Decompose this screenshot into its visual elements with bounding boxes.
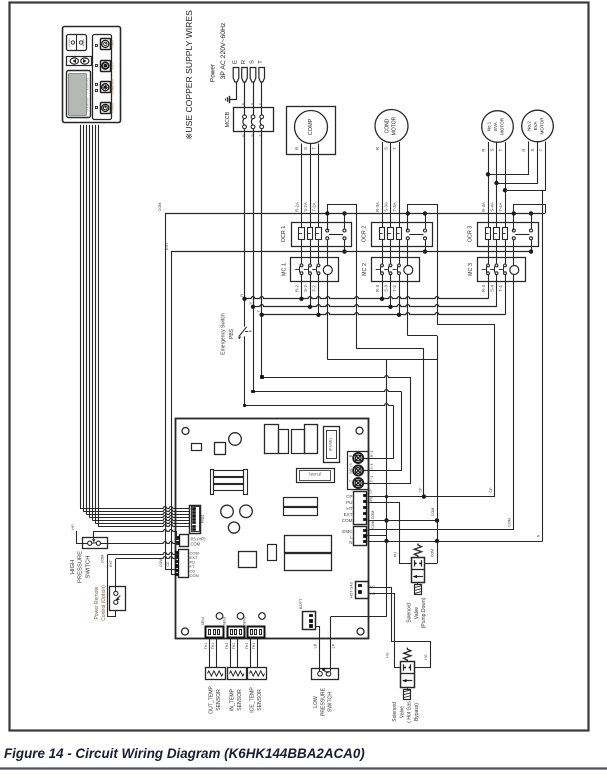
svg-text:T~1: T~1 [370, 476, 374, 482]
svg-text:PU: PU [370, 496, 374, 501]
svg-text:EXT: EXT [109, 559, 113, 567]
svg-text:(MC) S: (MC) S [349, 462, 353, 473]
svg-text:MCCB: MCCB [225, 111, 231, 127]
svg-text:EVA: EVA [533, 121, 538, 131]
svg-text:CP: CP [346, 494, 352, 499]
svg-text:HG: HG [386, 652, 390, 658]
svg-text:S: S [384, 147, 389, 150]
svg-text:MOTOR: MOTOR [392, 116, 398, 135]
svg-text:TH1: TH1 [204, 643, 208, 650]
svg-text:EVA: EVA [493, 121, 498, 131]
svg-text:PRESSURE: PRESSURE [78, 551, 84, 583]
svg-text:Bypass): Bypass) [414, 703, 420, 721]
svg-text:SENSOR: SENSOR [257, 689, 263, 711]
svg-text:HT: HT [346, 506, 352, 511]
svg-text:T-2: T-2 [312, 285, 317, 292]
svg-text:3P AC 220V~60Hz: 3P AC 220V~60Hz [220, 22, 227, 79]
svg-text:T-3A: T-3A [392, 202, 397, 211]
svg-text:ICE L: ICE L [111, 62, 115, 69]
svg-text:CP: CP [489, 487, 493, 493]
svg-text:S: S [250, 60, 256, 64]
svg-text:ALARM: ALARM [82, 39, 85, 46]
svg-text:T-4A: T-4A [498, 202, 503, 211]
svg-text:(Pump Down): (Pump Down) [421, 597, 427, 628]
svg-text:COM: COM [371, 511, 375, 519]
svg-text:COM: COM [508, 518, 512, 526]
svg-text:R: R [240, 294, 244, 297]
svg-text:COMP: COMP [308, 118, 314, 135]
svg-text:R: R [295, 147, 300, 150]
svg-text:Power: Power [210, 63, 217, 82]
svg-text:LP: LP [314, 643, 318, 648]
svg-text:COM: COM [431, 508, 435, 516]
svg-text:OUT_TEMP: OUT_TEMP [209, 686, 215, 714]
svg-text:PRESSURE: PRESSURE [320, 687, 326, 716]
svg-text:OCR 3: OCR 3 [468, 226, 474, 242]
svg-text:T: T [539, 148, 544, 151]
svg-text:No.2: No.2 [527, 121, 532, 131]
svg-text:ICE_TEMP: ICE_TEMP [250, 687, 256, 713]
svg-text:R-3A: R-3A [375, 202, 380, 212]
svg-text:COM: COM [342, 518, 353, 523]
svg-text:R: R [242, 102, 246, 105]
svg-text:※USE COPPER SUPPLY WIRES: ※USE COPPER SUPPLY WIRES [184, 10, 194, 140]
svg-text:R-2A: R-2A [295, 202, 300, 212]
svg-text:COM: COM [371, 520, 375, 528]
svg-text:SEN1: SEN1 [201, 616, 205, 625]
svg-text:Solenoid: Solenoid [407, 603, 413, 623]
svg-text:TH3: TH3 [252, 643, 256, 650]
svg-text:MC 3: MC 3 [468, 263, 474, 276]
svg-text:CD: CD [166, 561, 170, 566]
svg-text:COM: COM [158, 203, 162, 212]
svg-text:T: T [349, 480, 353, 482]
svg-text:Figure 14 - Circuit Wiring Dia: Figure 14 - Circuit Wiring Diagram (K6HK… [4, 746, 365, 761]
svg-text:SENSOR: SENSOR [216, 689, 222, 711]
svg-text:COM: COM [101, 555, 105, 563]
svg-text:CP: CP [419, 487, 423, 493]
svg-text:COM: COM [191, 542, 201, 547]
svg-text:Power Remote: Power Remote [94, 586, 100, 619]
svg-text:COM: COM [159, 559, 163, 567]
svg-text:MC 2: MC 2 [362, 263, 368, 276]
svg-text:LP: LP [332, 643, 336, 648]
svg-text:PU: PU [346, 500, 352, 505]
svg-text:COND: COND [385, 118, 391, 133]
svg-text:S: S [530, 148, 535, 151]
svg-text:N: N [349, 540, 352, 545]
svg-text:EMC: EMC [342, 529, 353, 534]
svg-text:PBS: PBS [229, 328, 235, 339]
svg-text:S-4: S-4 [490, 285, 495, 292]
svg-text:EXT: EXT [344, 512, 353, 517]
svg-text:FND: FND [200, 515, 205, 524]
svg-text:Emergency Switch: Emergency Switch [221, 313, 227, 355]
svg-text:SWITCH: SWITCH [328, 692, 334, 712]
svg-text:POWER: POWER [111, 103, 115, 113]
svg-text:LOW: LOW [313, 696, 319, 708]
svg-text:R: R [375, 147, 380, 150]
svg-text:HP: HP [71, 524, 75, 530]
svg-text:OCR 1: OCR 1 [281, 226, 287, 242]
svg-text:S-4A: S-4A [490, 202, 495, 212]
svg-text:T: T [312, 147, 317, 150]
svg-text:S-3: S-3 [384, 285, 389, 292]
svg-text:SWITCH: SWITCH [86, 556, 92, 579]
svg-text:R: R [522, 148, 527, 151]
svg-text:T-2A: T-2A [312, 202, 317, 211]
svg-text:COM: COM [431, 549, 435, 557]
svg-text:S: S [249, 302, 253, 305]
svg-text:Valve: Valve [399, 706, 405, 718]
svg-text:MC 1: MC 1 [282, 263, 288, 276]
svg-text:SENSOR: SENSOR [237, 689, 243, 711]
svg-text:T: T [498, 148, 503, 151]
svg-text:R: R [241, 60, 247, 64]
svg-text:Control (Option): Control (Option) [101, 585, 107, 621]
svg-text:IN_TEMP: IN_TEMP [230, 688, 236, 711]
svg-text:(FUSE): (FUSE) [308, 472, 321, 476]
svg-text:S: S [490, 148, 495, 151]
svg-text:MOTOR: MOTOR [540, 117, 545, 135]
svg-text:8:8.8 F 8.8.8: 8:8.8 F 8.8.8 [88, 77, 90, 90]
svg-text:COM: COM [190, 573, 199, 578]
svg-text:OCR 2: OCR 2 [362, 226, 368, 242]
svg-text:HOT GAS: HOT GAS [350, 581, 354, 598]
svg-text:CLEAN: CLEAN [111, 86, 115, 95]
svg-text:R: R [242, 134, 246, 137]
svg-text:BZ/FT: BZ/FT [299, 598, 303, 609]
svg-text:TH3: TH3 [245, 643, 249, 650]
svg-text:S-3A: S-3A [384, 202, 389, 212]
svg-text:R-4A: R-4A [481, 202, 486, 212]
svg-text:TIMER: TIMER [111, 40, 115, 48]
svg-text:E: E [233, 60, 239, 64]
svg-text:R-3: R-3 [375, 284, 380, 292]
svg-text:No.1: No.1 [487, 121, 492, 131]
svg-text:R-4: R-4 [481, 284, 486, 292]
svg-text:HIGH: HIGH [70, 560, 76, 575]
svg-text:T: T [392, 147, 397, 150]
svg-text:TH1: TH1 [211, 643, 215, 650]
svg-text:R-2: R-2 [295, 284, 300, 292]
svg-text:Solenoid: Solenoid [392, 702, 398, 722]
svg-text:PU: PU [394, 552, 398, 557]
svg-text:S-2A: S-2A [303, 202, 308, 212]
svg-text:8.8.8 SET 8.8: 8.8.8 SET 8.8 [88, 98, 90, 112]
svg-text:ICE FULL: ICE FULL [69, 37, 71, 47]
svg-text:L: L [350, 534, 353, 539]
svg-text:CP: CP [369, 488, 373, 494]
svg-text:HG: HG [424, 654, 428, 660]
svg-text:(FUSE): (FUSE) [329, 437, 333, 450]
svg-text:( Hot Gas: ( Hot Gas [407, 701, 413, 723]
svg-text:R: R [481, 148, 486, 151]
svg-text:S~1: S~1 [370, 463, 374, 470]
svg-text:N: N [537, 534, 541, 537]
svg-text:TH2: TH2 [225, 643, 229, 650]
svg-text:MOTOR: MOTOR [500, 117, 505, 135]
svg-text:T-4: T-4 [498, 285, 503, 292]
svg-text:TH2: TH2 [232, 643, 236, 650]
svg-text:SEN2: SEN2 [223, 616, 227, 625]
svg-text:S-2: S-2 [303, 285, 308, 292]
svg-text:S: S [303, 147, 308, 150]
svg-text:T: T [258, 60, 264, 64]
svg-text:Valve: Valve [414, 607, 420, 619]
svg-text:T-3: T-3 [392, 285, 397, 292]
svg-text:R~1: R~1 [370, 451, 374, 458]
